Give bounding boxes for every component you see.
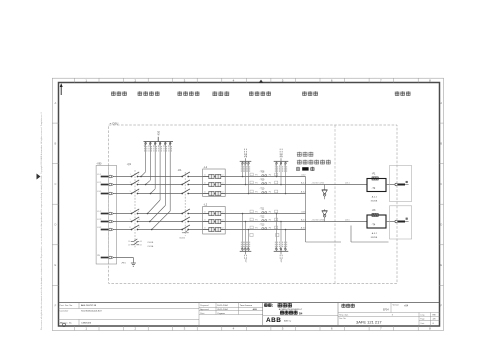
input terminal L2.2 <box>97 219 113 223</box>
svg-text:Print: Print <box>200 312 205 315</box>
title field customer <box>60 310 103 313</box>
contactor K1 auxiliary contact <box>182 229 189 236</box>
current sensor -T11 <box>250 209 278 214</box>
title section divider <box>263 303 338 327</box>
drawing title (Chinese bold) <box>264 303 292 307</box>
wire A2.6 cross-ref (group2) <box>301 218 350 221</box>
current sensor -T09 <box>250 180 278 185</box>
svg-text:-CU/16 CU/56: -CU/16 CU/56 <box>312 220 325 222</box>
contactor K1 pole 1/2 <box>181 172 190 177</box>
column label: current measurement <box>249 91 271 96</box>
svg-text:P1: P1 <box>255 227 257 229</box>
svg-text:-T09: -T09 <box>260 180 265 182</box>
switch Q1 pole 7/8 <box>130 209 140 214</box>
svg-text:Customer: Customer <box>60 310 69 313</box>
output terminal box 1 <box>390 166 412 202</box>
current sensor -T10 <box>250 189 278 194</box>
corner arrow marker <box>60 83 63 95</box>
svg-text:-X90: -X90 <box>96 163 102 166</box>
svg-text:ABB Oy: ABB Oy <box>284 319 291 322</box>
left reference ruler <box>52 101 58 308</box>
svg-text:21: 21 <box>128 245 130 247</box>
svg-text:3AFE 121 217: 3AFE 121 217 <box>356 319 382 324</box>
svg-text:U1: U1 <box>204 228 206 230</box>
svg-text:Test Netherlands B.V.: Test Netherlands B.V. <box>81 310 102 313</box>
svg-text:-L1: -L1 <box>204 166 208 169</box>
svg-text:Version: Version <box>393 303 399 306</box>
bottom reference ruler <box>75 326 432 331</box>
surge arrester F6 <box>322 209 328 221</box>
disconnector Q1 label and linkage <box>127 163 135 239</box>
svg-text:P1: P1 <box>255 174 257 176</box>
svg-text:P2: P2 <box>269 174 271 176</box>
svg-text:U2: U2 <box>222 228 224 230</box>
switch Q1 pole 11/12 <box>129 225 140 230</box>
svg-text:16-11-2004: 16-11-2004 <box>217 305 228 307</box>
svg-text:U2: U2 <box>222 175 224 177</box>
svg-text:1: 1 <box>130 174 131 176</box>
input terminal PE <box>97 255 113 259</box>
title field approved <box>200 308 257 311</box>
switch Q1 auxiliary contacts <box>128 239 141 248</box>
svg-text:U1: U1 <box>204 175 206 177</box>
power module note line1 <box>297 152 313 157</box>
svg-text:Lang.: Lang. <box>420 314 425 316</box>
svg-text:ABB: ABB <box>266 317 281 324</box>
input terminal L3.2 <box>97 227 113 231</box>
title block grid (right) <box>338 303 440 327</box>
svg-text:P1: P1 <box>255 182 257 184</box>
svg-text:14: 14 <box>140 241 142 243</box>
input terminal L3.1 <box>97 191 113 195</box>
node L13.2 label <box>301 174 306 176</box>
svg-text:6: 6 <box>138 191 139 193</box>
title block grid (left) <box>59 303 440 327</box>
inductor L2 <box>203 204 226 235</box>
wire L2.2 row <box>113 221 367 223</box>
svg-text:Page: Page <box>420 318 424 320</box>
svg-text:U1: U1 <box>204 192 206 194</box>
column label: inductor <box>213 91 230 96</box>
terminal strip X50 bar <box>144 130 174 141</box>
svg-text:N2/DB: N2/DB <box>371 237 378 239</box>
switch Q1 pole 5/6 <box>130 189 140 194</box>
node L13.6 label <box>301 211 306 213</box>
title field drawing name <box>342 304 390 312</box>
svg-text:U2: U2 <box>222 183 224 185</box>
svg-text:05-11-2004: 05-11-2004 <box>217 309 228 311</box>
svg-text:Tomi Jansen: Tomi Jansen <box>240 305 253 307</box>
svg-text:C: C <box>54 182 56 186</box>
voltage tap group B <box>274 149 289 263</box>
svg-text:ABB: ABB <box>253 308 258 311</box>
svg-text:-T08: -T08 <box>260 172 265 174</box>
title field page <box>420 318 436 320</box>
svg-text:U2: U2 <box>222 220 224 222</box>
svg-text:Resp. dept.: Resp. dept. <box>339 313 349 316</box>
current sensor -T13 <box>250 225 278 230</box>
svg-text:A.2.6: A.2.6 <box>301 218 307 221</box>
svg-text:U1: U1 <box>204 183 206 185</box>
OSU enclosure label =.OSU <box>110 121 119 125</box>
title field resp dept <box>339 313 393 316</box>
wire L3.2 row <box>113 229 305 231</box>
svg-text:CU/0B: CU/0B <box>147 242 154 244</box>
svg-text:13: 13 <box>128 241 130 243</box>
column label: disconnector <box>138 91 160 96</box>
svg-text:-Q1: -Q1 <box>127 163 132 166</box>
svg-text:7: 7 <box>130 211 131 213</box>
input terminal L1.2 <box>97 211 113 215</box>
svg-text:P2: P2 <box>269 211 271 213</box>
switch Q1 pole 1/2 <box>130 172 140 177</box>
inductor L1 <box>203 166 226 197</box>
title field doc no <box>339 318 382 324</box>
title field prepared <box>200 305 253 307</box>
svg-text:4: 4 <box>138 182 139 184</box>
contactor K1 pole 7/8 <box>181 209 190 214</box>
left margin copyright text (rotated) <box>40 112 43 330</box>
terminal block X90 label <box>96 163 102 166</box>
title field print <box>200 312 226 315</box>
svg-text:ABB Doc. No.: ABB Doc. No. <box>60 322 73 325</box>
svg-text:3: 3 <box>392 314 393 316</box>
svg-text:5: 5 <box>130 191 131 193</box>
svg-text:B: B <box>55 141 57 145</box>
svg-text:9: 9 <box>130 219 131 221</box>
svg-text:=.OSU: =.OSU <box>110 121 119 125</box>
fuse tap 15 to row <box>149 142 167 223</box>
svg-text:3: 3 <box>130 182 131 184</box>
svg-text:A: A <box>55 101 57 105</box>
output terminal box 2 <box>390 206 412 239</box>
svg-text:U1: U1 <box>204 212 206 214</box>
svg-text:D4: D4 <box>299 311 303 315</box>
fuse tap 14 to row <box>147 142 162 215</box>
svg-text:22: 22 <box>140 245 142 247</box>
svg-text:U2: U2 <box>222 192 224 194</box>
wire A2.2 cross-ref (group1) <box>301 181 350 184</box>
svg-text:Approved: Approved <box>200 308 209 311</box>
svg-text:P2: P2 <box>269 191 271 193</box>
svg-text:E: E <box>55 263 57 267</box>
sensor lower tag boxes <box>250 233 279 236</box>
svg-text:EF54: EF54 <box>383 308 389 311</box>
node A3.6 label <box>301 226 307 229</box>
svg-text:Cust. Doc. No.: Cust. Doc. No. <box>60 304 73 307</box>
voltage tap group A <box>240 149 252 263</box>
svg-text:P2: P2 <box>269 182 271 184</box>
svg-text:We reserve all rights in this: We reserve all rights in this document a… <box>40 112 43 330</box>
wire L1.1 row <box>113 176 305 178</box>
svg-text:Prepared: Prepared <box>200 305 208 307</box>
input terminal L2.1 <box>97 182 113 186</box>
svg-text:P1: P1 <box>255 191 257 193</box>
power module 2 (F3/T4) <box>367 209 409 239</box>
svg-text:A.3.2: A.3.2 <box>372 232 378 235</box>
title field lang <box>420 314 436 316</box>
top ruler triangle marker <box>259 80 264 83</box>
switch Q1 pole 9/10 <box>130 217 140 222</box>
svg-text:P2: P2 <box>269 227 271 229</box>
fuse tap 12 to row <box>145 142 152 186</box>
corner circle marker <box>62 323 65 326</box>
svg-text:AE4.200797.38: AE4.200797.38 <box>81 304 97 307</box>
svg-text:C: C <box>440 182 442 186</box>
svg-text:P1: P1 <box>255 219 257 221</box>
wire L2.1 row <box>113 184 367 186</box>
svg-text:Doc. No.: Doc. No. <box>339 318 346 320</box>
svg-text:B: B <box>440 141 442 145</box>
title block grid (middle) <box>199 303 263 327</box>
wire L1.2 row <box>113 213 305 215</box>
svg-text:A: A <box>440 101 442 105</box>
right reference ruler <box>440 101 444 308</box>
current sensor -T12 <box>250 217 278 222</box>
Q1 aux cross-reference text <box>147 242 154 248</box>
svg-text:8: 8 <box>138 211 139 213</box>
column label: output connector <box>395 91 411 96</box>
svg-text:D: D <box>440 223 442 227</box>
PE bus vertical <box>305 177 307 243</box>
fuse tap 11 to row <box>140 142 147 178</box>
PE label <box>121 263 126 265</box>
svg-text:N1/DB: N1/DB <box>371 200 378 202</box>
column label: connector <box>111 91 127 96</box>
fuse tap 16 to row <box>151 142 172 231</box>
svg-text:-K1: -K1 <box>178 169 183 172</box>
svg-text:-X50: -X50 <box>157 130 160 136</box>
svg-text:CU/9A: CU/9A <box>147 245 154 248</box>
svg-text:-T11: -T11 <box>260 209 265 211</box>
svg-text:D: D <box>54 223 56 227</box>
svg-text:12: 12 <box>138 227 140 229</box>
wire PE row <box>113 258 133 263</box>
contactor K1 pole 3/4 <box>181 180 190 185</box>
switch Q1 pole 3/4 <box>130 180 140 185</box>
svg-text:10: 10 <box>138 219 140 221</box>
svg-text:Cayman: Cayman <box>217 313 226 315</box>
outer frame <box>52 78 443 330</box>
contactor K1 pole 9/10 <box>181 217 190 222</box>
input terminal L1.1 <box>97 174 113 178</box>
title field cont <box>420 322 434 325</box>
top reference ruler <box>75 78 432 83</box>
module section divider (dashed) <box>334 125 336 284</box>
PE bus horizontal <box>306 241 389 243</box>
svg-text:11: 11 <box>129 227 131 229</box>
ABB logo <box>266 317 291 324</box>
svg-text:Cont.: Cont. <box>420 322 425 325</box>
left margin fold marker <box>37 174 41 180</box>
wire L3.1 row <box>113 193 305 195</box>
svg-text:A.2.2: A.2.2 <box>301 181 307 184</box>
node A3.2 label <box>301 190 307 193</box>
module2 PE stub <box>350 226 352 243</box>
power module note line3 (page ref) <box>296 167 314 171</box>
svg-text:A.2.2: A.2.2 <box>372 196 378 199</box>
svg-text:2: 2 <box>138 174 139 176</box>
surge arrester F5 <box>322 185 328 200</box>
svg-text:U2: U2 <box>222 212 224 214</box>
drawing subtitle (Chinese bold) <box>280 311 303 316</box>
current sensor -T08 <box>250 172 278 177</box>
column label: main contactor <box>178 91 200 96</box>
contactor K1 label and linkage <box>178 169 186 229</box>
title field cust doc no <box>60 304 97 307</box>
svg-text:U1: U1 <box>204 220 206 222</box>
power module 1 (F1/T2) <box>367 173 409 203</box>
ground symbol PE1 <box>131 263 136 266</box>
K1 aux cross-reference text <box>179 238 186 240</box>
svg-text:E: E <box>440 263 442 267</box>
svg-text:+04: +04 <box>404 305 409 308</box>
contactor K1 pole 11/12 <box>181 225 190 230</box>
power module note line2 <box>297 160 331 165</box>
title field version <box>393 303 409 307</box>
svg-text:-T10: -T10 <box>260 189 265 191</box>
contactor K1 pole 5/6 <box>181 189 190 194</box>
svg-text:-T13: -T13 <box>260 225 265 227</box>
svg-text:-L2: -L2 <box>204 204 208 207</box>
terminal block X90 box <box>96 166 117 265</box>
column label: power module <box>302 91 318 96</box>
svg-text:-T12: -T12 <box>260 217 265 219</box>
inner frame (thick border) <box>59 83 440 327</box>
svg-text:P1: P1 <box>255 211 257 213</box>
OSU enclosure (dashed) <box>109 125 397 284</box>
svg-text:CU/06: CU/06 <box>179 238 186 240</box>
drawing type code <box>279 308 303 311</box>
title field abb doc no <box>60 322 92 325</box>
svg-text:P2: P2 <box>269 219 271 221</box>
fuse tap 13 to row <box>150 142 157 195</box>
svg-text:-CU/10 CU/52: -CU/10 CU/52 <box>312 183 325 185</box>
svg-text:C3805325: C3805325 <box>81 323 92 325</box>
